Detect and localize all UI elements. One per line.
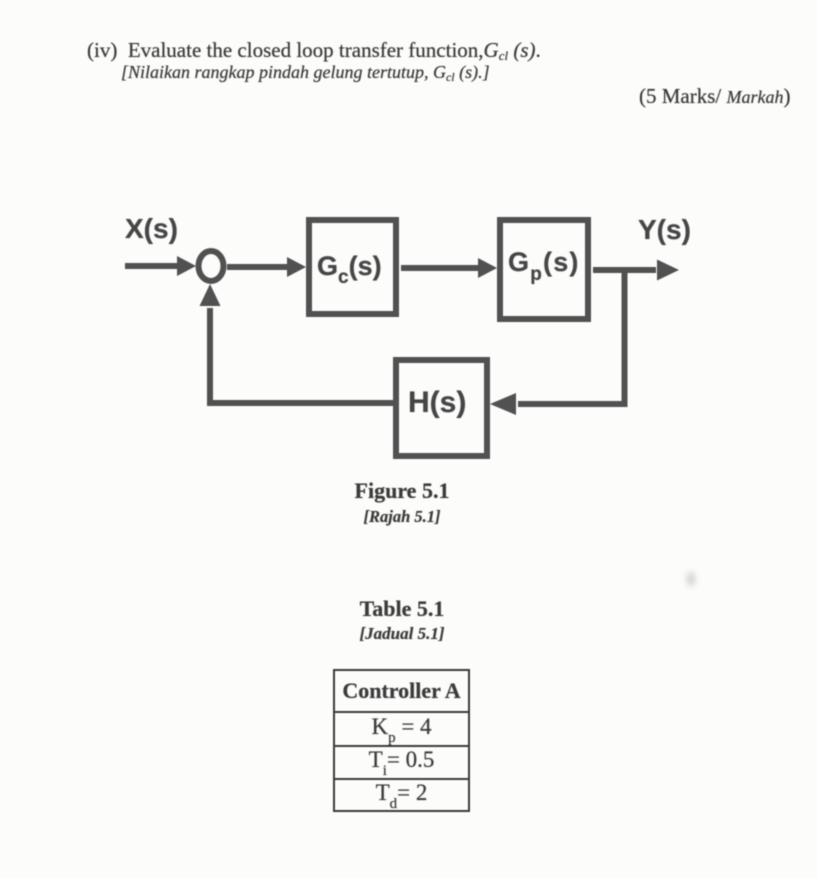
- label Gp(s): [508, 247, 580, 285]
- label Gc(s): [317, 251, 382, 288]
- arrowhead into sum: [177, 256, 196, 276]
- wire output branch down: [518, 270, 625, 404]
- block Gp(s): [500, 220, 588, 319]
- figure caption: [252, 478, 552, 504]
- wire Gc to Gp: [401, 265, 480, 271]
- block H(s): [396, 360, 487, 456]
- svg-text:Gp(s): Gp(s): [508, 247, 580, 285]
- row Kp = 4: [335, 713, 468, 747]
- wire H to sum: [210, 308, 395, 403]
- wire output: [593, 267, 656, 273]
- arrowhead into Gc: [287, 257, 306, 277]
- arrowhead output: [657, 260, 679, 281]
- svg-text:Gc(s): Gc(s): [317, 251, 382, 288]
- question line 2 (italic malay): [121, 62, 490, 85]
- faint smudge: [682, 566, 700, 592]
- table caption: [252, 596, 552, 622]
- arrowhead into H: [490, 393, 516, 415]
- wire sum to Gc: [227, 264, 290, 270]
- label H(s): [408, 386, 466, 419]
- svg-text:Y(s): Y(s): [638, 214, 691, 245]
- svg-text:H(s): H(s): [408, 386, 466, 419]
- row Ti = 0.5: [335, 747, 468, 780]
- marks line: [639, 84, 791, 109]
- arrowhead into sum from below: [200, 284, 221, 306]
- table 5.1: [333, 669, 470, 812]
- block Gc(s): [309, 220, 396, 314]
- svg-text:X(s): X(s): [125, 213, 178, 244]
- question line 1: [87, 38, 541, 64]
- label Y(s): [638, 214, 691, 245]
- wire input: [125, 263, 180, 269]
- arrowhead into Gp: [478, 258, 497, 278]
- row Controller A: [335, 671, 468, 713]
- label X(s): [125, 213, 178, 244]
- block diagram: [0, 0, 817, 560]
- row Td = 2: [335, 780, 468, 812]
- summing junction: [199, 251, 224, 281]
